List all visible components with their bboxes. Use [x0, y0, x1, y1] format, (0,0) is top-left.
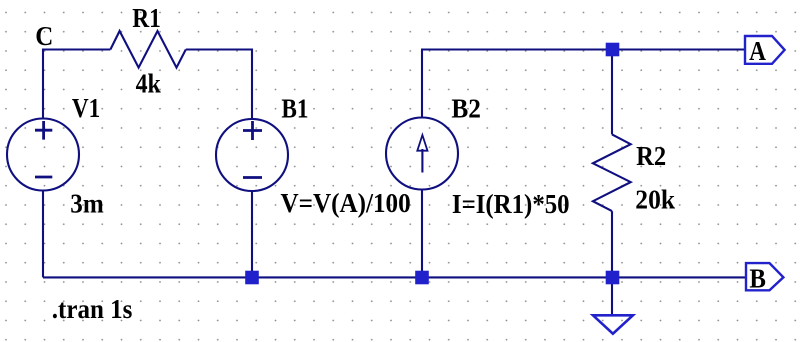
resistor R2 [593, 134, 631, 211]
wire junction down to R2 [611, 50, 613, 135]
svg-text:4k: 4k [136, 68, 162, 99]
svg-text:3m: 3m [70, 189, 104, 219]
behavioral voltage source B1 [216, 119, 288, 191]
svg-text:V=V(A)/100: V=V(A)/100 [281, 188, 411, 218]
ground [593, 315, 633, 333]
wire top-left from node C corner to R1 [43, 48, 110, 50]
svg-text:B2: B2 [451, 94, 481, 124]
wire vertical down to B1 top [251, 49, 253, 120]
svg-text:B1: B1 [281, 95, 308, 124]
port flag A [745, 36, 785, 67]
wire V1 bottom down to bottom rail [42, 191, 44, 278]
voltage source V1 [7, 119, 79, 191]
svg-text:R2: R2 [636, 141, 666, 171]
wire from R1 right to B1 top corner [186, 48, 252, 50]
junction at B2 bottom [415, 271, 429, 285]
port flag B [746, 263, 783, 294]
bottom rail wire [43, 276, 745, 278]
wire B2 top up and over to top-right junction [421, 50, 613, 118]
svg-text:A: A [749, 38, 767, 67]
wire top-right junction to port A [612, 48, 745, 50]
junction at R2 bottom [606, 271, 620, 285]
wire B2 bottom to rail [421, 190, 423, 278]
wire vertical from C corner down to V1 top [42, 49, 44, 120]
svg-text:I=I(R1)*50: I=I(R1)*50 [452, 189, 570, 219]
svg-text:C: C [35, 21, 53, 51]
svg-text:R1: R1 [132, 4, 161, 34]
svg-text:V1: V1 [72, 95, 100, 124]
wire B1 bottom to rail [251, 191, 253, 277]
junction at B1 bottom [245, 271, 259, 285]
junction at top right [606, 43, 620, 57]
svg-text:B: B [749, 264, 766, 294]
svg-text:.tran 1s: .tran 1s [52, 294, 133, 324]
resistor R1 [110, 31, 185, 68]
behavioral current source B2 [386, 118, 458, 190]
wire junction down to ground [611, 277, 613, 314]
svg-text:20k: 20k [635, 185, 675, 215]
wire R2 bottom to rail [611, 211, 613, 277]
